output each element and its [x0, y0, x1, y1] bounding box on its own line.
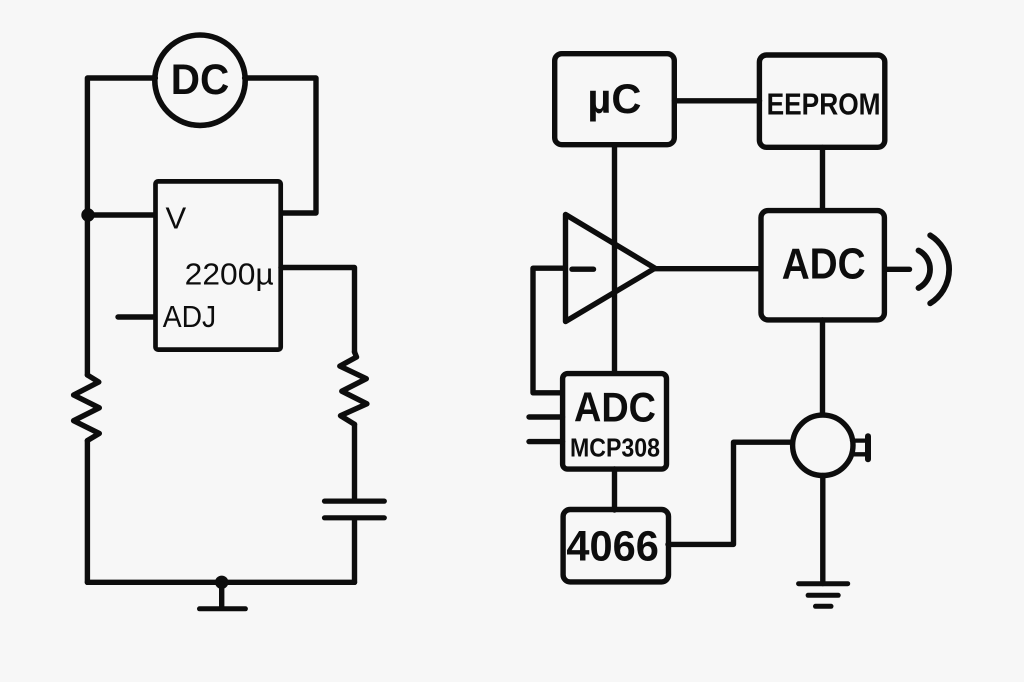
wire R1 to bottom rail	[85, 441, 90, 583]
microcontroller U2 box	[555, 54, 675, 145]
ADJ pin stub	[118, 314, 154, 319]
regulator U1 box	[156, 181, 281, 349]
ground stub left circuit	[219, 584, 224, 607]
svg-text:EEPROM: EEPROM	[767, 87, 881, 122]
svg-text:4066: 4066	[566, 523, 659, 570]
bottom rail wire	[87, 580, 354, 585]
resistor R1 zigzag	[74, 375, 100, 441]
ground bar 3 right circuit	[816, 604, 832, 609]
ground bar left circuit	[200, 606, 246, 611]
svg-text:MCP308: MCP308	[570, 432, 660, 462]
junction node on bottom rail	[215, 576, 228, 589]
capacitor C1 top plate	[325, 499, 385, 504]
svg-text:DC: DC	[171, 56, 230, 104]
wire EEPROM down to ADC1	[820, 148, 825, 211]
wire node V input from rail to regulator	[88, 212, 154, 217]
EEPROM U3 box	[759, 55, 884, 147]
wire ADC1 down to sensor circle	[820, 320, 825, 415]
wire 4066 to sensor circle	[668, 442, 791, 544]
wire from DC left to left rail	[87, 78, 155, 375]
svg-text:ADC: ADC	[574, 383, 656, 430]
ground bar 2 right circuit	[808, 593, 838, 598]
wire feedback from op-amp input down to ADC2	[533, 268, 564, 393]
svg-text:2200µ: 2200µ	[185, 258, 274, 292]
resistor R2 zigzag	[340, 352, 367, 424]
wireless arc outer	[930, 235, 949, 303]
svg-text:µC: µC	[587, 75, 641, 122]
wire sensor circle down to ground	[820, 476, 825, 584]
ADC1 U5 box	[761, 211, 884, 320]
wire uC to EEPROM	[675, 98, 760, 103]
capacitor C1 bottom plate	[325, 515, 385, 520]
wire uC down to ADC2 through op-amp	[612, 145, 617, 373]
wire R2 to capacitor	[352, 424, 357, 498]
op-amp inverting input minus sign	[572, 267, 594, 272]
svg-text:ADC: ADC	[782, 240, 866, 288]
ADC2 pin stub 1	[529, 414, 563, 419]
wire capacitor to bottom rail	[352, 520, 357, 582]
op-amp U4 triangle	[566, 215, 656, 322]
junction node at V input	[81, 208, 94, 221]
antenna stub from ADC1	[885, 267, 910, 272]
sensor terminal bar	[865, 436, 871, 459]
ground bar 1 right circuit	[799, 581, 848, 586]
DC source V1 circle	[155, 35, 245, 125]
sensor pin bottom line	[852, 452, 865, 456]
ADC2 pin stub 2	[529, 439, 563, 444]
sensor pin top line	[852, 438, 865, 442]
wire ADC2 down to 4066	[612, 469, 617, 510]
svg-text:V: V	[166, 201, 187, 236]
4066 U7 box	[563, 510, 668, 582]
wire regulator output to right branch	[281, 268, 355, 353]
sensor M1 circle	[793, 415, 853, 475]
wire op-amp output to ADC1	[655, 266, 760, 271]
ADC2 U6 MCP308 box	[563, 374, 667, 470]
wire from DC right down to regulator right pin	[245, 78, 316, 213]
wireless arc inner	[919, 251, 931, 289]
svg-text:ADJ: ADJ	[163, 300, 217, 334]
